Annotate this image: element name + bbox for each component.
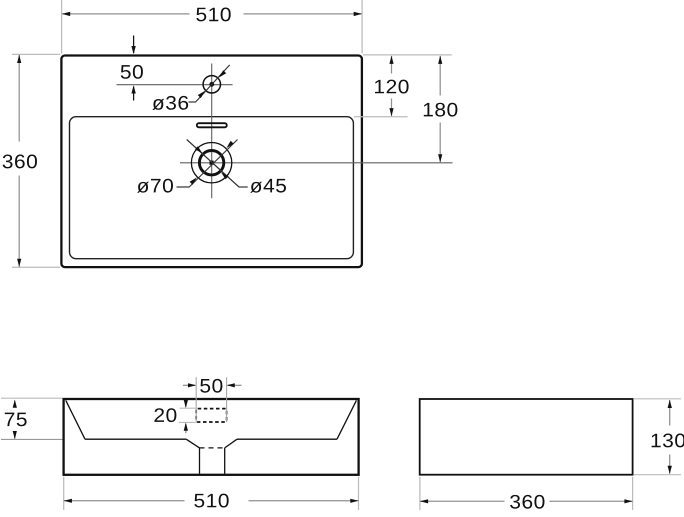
drain center dot: [210, 161, 214, 165]
top view outer rim rectangle 510x360: [61, 56, 362, 268]
front view funnel hidden dashed line: [200, 447, 225, 449]
front view drain pipe right wall: [224, 448, 226, 474]
label o45 text: [250, 179, 286, 193]
dim 360 left line upper segment: [18, 55, 20, 142]
dim 120 line lower segment: [391, 99, 393, 117]
dim 20 lower leg: [185, 424, 187, 434]
dim 510 top extension line right: [361, 0, 363, 54]
dim 180 text: [424, 103, 458, 117]
dim 130 extension line top: [634, 398, 681, 400]
dim 510 top line left segment: [62, 13, 190, 15]
faucet horizontal centerline: [117, 84, 233, 86]
dim 50 slot extension line right: [226, 377, 228, 422]
dim 360 left text: [3, 155, 37, 169]
front view basin floor right segment: [237, 438, 337, 440]
label o36 leader: [189, 101, 196, 103]
dim 75 up arrowhead: [13, 400, 17, 408]
overflow slot: [197, 123, 227, 127]
dim 75 down arrowhead: [13, 431, 17, 439]
dim 50 slot left arrowhead: [188, 383, 196, 387]
dim 50 slot right arrowhead: [227, 383, 235, 387]
front view hidden overflow slot dashed: [196, 409, 226, 422]
dim 20 extension line slot bottom: [179, 421, 196, 423]
dim 50 faucet up arrowhead: [131, 85, 135, 93]
side view outline rectangle: [420, 399, 633, 475]
dim 510 top right arrowhead: [354, 12, 362, 16]
dim 120 reference line at basin rim: [354, 116, 408, 118]
front view funnel left slope: [186, 439, 199, 448]
faucet hole center dot: [209, 82, 214, 87]
dim 50 slot extension line left: [195, 377, 197, 422]
drain arrowhead at outer NE edge: [226, 141, 233, 148]
dim 20 extension line slot top: [180, 407, 196, 409]
dim 130 line upper segment: [669, 400, 671, 426]
drain inner circle o45: [199, 151, 223, 175]
dim 510 bottom right arrowhead: [350, 499, 358, 503]
vertical centerline through faucet and drain: [211, 64, 213, 199]
dim 50 slot text: [200, 379, 222, 393]
front view outline rectangle: [64, 399, 359, 475]
dim 50 faucet text: [121, 65, 143, 79]
dim 130 line lower segment: [669, 455, 671, 474]
dim 510 bottom line right segment: [249, 500, 359, 502]
faucet diagonal arrowhead at SW edge: [198, 91, 205, 98]
dim 50 faucet lower leg: [133, 87, 135, 101]
dim 510 bottom line left segment: [64, 500, 185, 502]
dim 120 down arrowhead: [389, 108, 393, 116]
dim 360 left line lower segment: [18, 176, 20, 267]
dim 510 bottom text: [194, 494, 228, 508]
dim 360 side right arrowhead: [624, 499, 632, 503]
dim 360 left extension line bottom: [12, 266, 60, 268]
dim 75 extension line top: [1, 397, 63, 399]
dim 510 top left arrowhead: [62, 12, 70, 16]
dim 120 up arrowhead: [389, 56, 393, 64]
dim 120 text: [375, 80, 409, 94]
top view inner basin rounded rectangle: [70, 117, 354, 259]
label o70 text: [137, 179, 173, 193]
dim 130 up arrowhead: [668, 400, 672, 408]
drain diagonal SW-NE o70 dimension line: [189, 140, 237, 188]
drain horizontal centerline extended to 180 dim: [180, 162, 453, 164]
front view drain pipe left wall: [199, 448, 201, 474]
dim 50 slot line left segment: [183, 384, 195, 386]
front view left basin slant: [66, 400, 85, 439]
dim 510 bottom extension line left: [63, 477, 65, 510]
dim 360 side text: [510, 495, 544, 509]
dim 20 text: [154, 408, 176, 422]
dim 130 down arrowhead: [668, 466, 672, 474]
dim 20 down arrowhead: [184, 400, 188, 408]
dim 75 lower leg: [14, 432, 16, 439]
dim 510 bottom left arrowhead: [64, 499, 72, 503]
faucet diagonal arrowhead at NE edge: [219, 70, 226, 77]
dim 360 side line right segment: [550, 500, 633, 502]
drain arrowhead at inner SE edge: [221, 172, 229, 179]
dim 510 top text: [196, 8, 230, 22]
dim 75 extension line bottom: [1, 438, 63, 440]
dim 180 down arrowhead: [438, 154, 442, 162]
dim 360 side extension line right: [632, 477, 634, 510]
dim 50 slot line right segment: [228, 384, 242, 386]
dim 50 faucet upper leg: [133, 36, 135, 54]
label o36 text: [152, 96, 188, 110]
dim 510 bottom extension line right: [358, 477, 360, 510]
dim 75 upper leg: [14, 401, 16, 408]
label o70 leader: [177, 186, 190, 188]
drain outer circle o70: [191, 143, 231, 183]
label o45 leader: [239, 186, 248, 188]
drain arrowhead at outer SW edge: [190, 177, 197, 184]
dim 130 extension line bottom: [634, 474, 681, 476]
drain diagonal NW-SE o45 dimension line: [187, 140, 239, 188]
dim 360 side left arrowhead: [420, 499, 428, 503]
dim 180 line upper segment: [439, 56, 441, 96]
dim 20 up arrowhead: [184, 423, 188, 431]
dim 360 side line left segment: [420, 500, 505, 502]
dim 510 top extension line left: [61, 0, 63, 54]
dim 120 reference line top right: [363, 54, 452, 56]
dim 360 left top arrowhead: [17, 55, 21, 63]
dim 20 upper leg: [185, 401, 187, 407]
faucet hole circle o36: [203, 76, 220, 93]
dim 50 faucet down arrowhead: [131, 46, 135, 54]
dim 360 left extension line top: [12, 53, 60, 55]
dim 75 text: [5, 413, 27, 427]
dim 360 left bottom arrowhead: [17, 259, 21, 267]
dim 180 line lower segment: [439, 123, 441, 163]
dim 510 top line right segment: [244, 13, 362, 15]
front view funnel right slope: [225, 439, 237, 448]
front view right basin slant: [337, 400, 356, 439]
dim 120 line upper segment: [391, 56, 393, 74]
faucet 45deg diagonal dimension line: [196, 65, 230, 102]
dim 360 side extension line left: [419, 477, 421, 510]
dim 180 up arrowhead: [438, 56, 442, 64]
dim 130 text: [652, 434, 684, 448]
front view basin floor left segment: [85, 438, 186, 440]
drain arrowhead at inner NW edge: [195, 146, 203, 153]
